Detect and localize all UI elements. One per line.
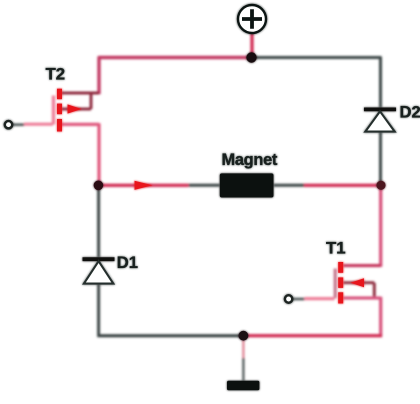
node B junction right (376, 181, 385, 190)
ground symbol (227, 381, 259, 390)
current direction arrowhead (135, 181, 153, 190)
wire magnet right lead (black) (274, 184, 305, 187)
wire magnet left lead (black) (189, 184, 220, 187)
wire T2 gate stub (gray) (12, 123, 24, 126)
T2 body arrowhead (68, 104, 82, 113)
wire T2 source up + top rail left (red) (99, 58, 252, 95)
svg-text:Magnet: Magnet (222, 151, 278, 169)
T2 source wire (top dash to right) (61, 92, 99, 95)
wire node B down to T1 drain (379, 185, 382, 267)
wire bottom rail right (red) (243, 334, 382, 337)
T2 gate bar (52, 96, 55, 125)
wire bottom rail left (black) (98, 334, 244, 337)
T1 body wire (343, 283, 374, 298)
battery positive terminal B+ (238, 5, 266, 33)
magnet (coil) body (220, 173, 274, 197)
wire node A to magnet (red) (98, 184, 188, 187)
T2 body wire (61, 93, 91, 109)
diode D1 (83, 257, 115, 261)
wire ground stem (pink upper) (242, 336, 244, 358)
wire D2 bottom to node B (black) (379, 132, 382, 186)
wire ground stem (gray lower) (242, 358, 244, 381)
T2 gate terminal circle (5, 121, 12, 128)
wire T2 gate (pink) (24, 123, 53, 126)
wire node A down to D1 (97, 185, 100, 257)
T1 channel dashes (338, 262, 343, 273)
wire battery to top rail (250, 33, 253, 58)
svg-text:T2: T2 (46, 64, 66, 83)
T1 body arrowhead (points left) (351, 278, 365, 287)
wire D1 bottom to bottom rail (97, 284, 100, 337)
T2 channel dashes (57, 89, 62, 100)
T1 drain wire (top dash to right) (343, 264, 381, 267)
node A junction left (94, 181, 104, 191)
wire top rail right + D2 branch top (black) (252, 58, 381, 108)
diode D2 (364, 108, 396, 112)
svg-text:D1: D1 (117, 253, 138, 272)
node junction top (246, 52, 256, 62)
node ground junction (239, 331, 249, 341)
T2 drain wire (bottom dash right, down to node A) (61, 123, 99, 185)
labels halo (46, 64, 420, 271)
svg-text:T1: T1 (326, 238, 346, 257)
T1 source wire (bottom dash right, down to bottom rail) (343, 297, 381, 337)
T1 gate bar (334, 269, 337, 299)
wire T1 gate (pink) (304, 297, 334, 300)
T1 gate terminal circle (285, 295, 292, 302)
svg-text:D2: D2 (400, 103, 420, 122)
wire magnet to node B (red) (304, 184, 381, 187)
wire T1 gate stub (gray) (292, 298, 304, 301)
